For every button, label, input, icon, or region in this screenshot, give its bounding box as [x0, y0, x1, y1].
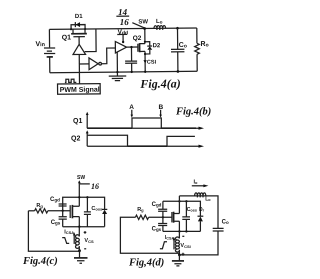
- svg-text:ICSA: ICSA: [64, 229, 74, 235]
- svg-text:Q2: Q2: [71, 136, 80, 143]
- svg-text:Cgd: Cgd: [152, 202, 162, 208]
- svg-text:D1: D1: [75, 14, 83, 20]
- svg-text:Lo: Lo: [205, 196, 211, 202]
- svg-text:Vin: Vin: [35, 41, 45, 48]
- svg-text:Io: Io: [194, 180, 199, 186]
- svg-text:SW: SW: [77, 175, 85, 181]
- svg-text:Cgs: Cgs: [152, 227, 162, 233]
- svg-text:SW: SW: [138, 19, 148, 25]
- svg-text:Fig,4(d): Fig,4(d): [128, 258, 164, 269]
- svg-text:Fig.4(a): Fig.4(a): [139, 76, 180, 90]
- svg-text:Q1: Q1: [73, 118, 82, 125]
- svg-text:Cgd: Cgd: [50, 197, 60, 203]
- svg-text:CSI: CSI: [147, 60, 157, 66]
- svg-text:Co: Co: [222, 220, 229, 226]
- svg-text:Lo: Lo: [156, 19, 163, 25]
- svg-text:Co: Co: [179, 42, 187, 50]
- svg-text:Rg: Rg: [137, 207, 144, 213]
- svg-text:VCS: VCS: [84, 238, 94, 244]
- svg-text:14: 14: [118, 7, 128, 17]
- svg-text:Ro: Ro: [201, 41, 209, 49]
- svg-text:Fig.4(c): Fig.4(c): [22, 256, 58, 267]
- svg-text:ICSA: ICSA: [165, 235, 175, 241]
- svg-text:Q1: Q1: [62, 34, 72, 41]
- svg-text:D2: D2: [153, 43, 161, 49]
- svg-text:Rg: Rg: [36, 203, 43, 209]
- svg-text:PWM Signal: PWM Signal: [60, 87, 100, 94]
- svg-text:16: 16: [120, 17, 130, 27]
- svg-text:16: 16: [91, 182, 99, 191]
- svg-text:Cgs: Cgs: [51, 220, 61, 226]
- svg-text:Fig.4(b): Fig.4(b): [175, 107, 211, 118]
- svg-text:Coss: Coss: [187, 207, 197, 213]
- svg-text:Q2: Q2: [133, 35, 142, 42]
- svg-text:Coss: Coss: [91, 206, 103, 212]
- svg-text:Dr: Dr: [199, 207, 205, 213]
- svg-text:VCSI: VCSI: [180, 243, 190, 249]
